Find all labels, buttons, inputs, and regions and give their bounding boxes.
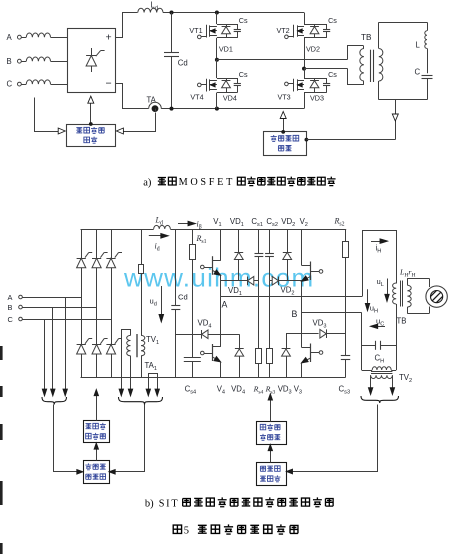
svg-text:VD2: VD2 — [306, 45, 320, 54]
resistor Rs1 — [190, 245, 196, 260]
diode VD1 vertical — [238, 229, 240, 252]
svg-text:Cd: Cd — [178, 293, 188, 302]
arrow iH — [371, 241, 382, 243]
dc bottom rail — [81, 377, 346, 379]
brace phases group — [42, 397, 67, 405]
cell loop wires — [304, 78, 327, 80]
inductor line A — [21, 37, 26, 39]
svg-text:VT3: VT3 — [278, 92, 291, 101]
induction heating coil + workpiece — [426, 286, 447, 307]
svg-text:−: − — [106, 78, 112, 90]
capacitor Cd — [171, 13, 173, 53]
TB secondary — [378, 22, 380, 48]
diode VD4 horizontal — [176, 334, 202, 336]
phase line A — [22, 297, 81, 299]
arrow uH — [367, 289, 369, 304]
thyristor column x=111.0 — [111, 229, 113, 258]
svg-text:B: B — [8, 303, 13, 312]
svg-text:MOSFET: MOSFET — [179, 177, 235, 188]
node: Ld-Cd junction — [170, 11, 174, 15]
svg-text:A: A — [8, 293, 13, 302]
bottom dc rail — [161, 108, 304, 110]
svg-text:B: B — [7, 57, 12, 66]
arrow uC — [377, 326, 385, 328]
wire: rectifier + to Ld — [116, 13, 138, 38]
svg-text:VT4: VT4 — [190, 92, 203, 101]
diode VD2 — [314, 24, 316, 27]
rectifier control circuit box — [84, 461, 110, 484]
brace TV2 group — [361, 396, 399, 403]
capacitor Cs of VT4 — [237, 78, 239, 83]
snubber column Rs2 / Cs3 — [345, 229, 347, 242]
arrow from TA into rectifier control — [123, 113, 156, 132]
node right leg midpoint — [302, 67, 306, 71]
node: VT1 drain junction — [215, 11, 219, 15]
TV1 secondary leads to control — [122, 330, 131, 390]
phase line C — [22, 319, 111, 321]
diode VD3 — [314, 78, 316, 81]
TB primary lower wire — [396, 304, 398, 370]
svg-text:5: 5 — [184, 526, 189, 537]
svg-text:C: C — [7, 80, 13, 89]
SIT V4 — [220, 296, 222, 347]
node: VT4 source junction — [215, 107, 219, 111]
svg-text:+: + — [106, 31, 112, 43]
inductor line B — [21, 61, 26, 63]
arrow ud — [161, 286, 163, 316]
svg-text:A: A — [222, 300, 228, 310]
diode VD1 — [226, 24, 228, 27]
diode VD4 — [226, 78, 228, 81]
inverter control circuit box — [257, 463, 287, 486]
arrow id — [149, 235, 162, 237]
svg-text:C: C — [415, 68, 421, 77]
thyristor lower — [106, 344, 115, 354]
arrow rect-control to rect-drive — [96, 448, 98, 461]
svg-text:VD3: VD3 — [310, 94, 324, 103]
wire brace-TV1 to rect-control — [115, 405, 145, 472]
rectifier box — [68, 29, 116, 93]
arrow inverter control to bridge — [283, 119, 285, 132]
phase line B — [22, 307, 96, 309]
diode VD2 vertical — [287, 229, 289, 252]
SIT V1 — [220, 229, 222, 261]
diode VD3 horizontal — [286, 333, 319, 335]
thyristor upper — [106, 258, 115, 268]
rectifier drive circuit box — [84, 421, 110, 443]
capacitor Cs of VT2 — [326, 24, 328, 29]
svg-text:TB: TB — [397, 317, 407, 326]
MOSFET VT1 — [198, 35, 202, 39]
svg-text:TB: TB — [361, 33, 372, 42]
svg-text:B: B — [292, 309, 298, 319]
capacitor Cs of VT3 — [326, 78, 328, 83]
arrow rect-control to rectifier — [90, 104, 92, 125]
thyristor upper — [77, 258, 86, 268]
diode VD3 vertical — [286, 334, 288, 349]
svg-text:SIT: SIT — [159, 499, 180, 510]
top dc rail — [163, 12, 304, 14]
cell loop wires — [304, 24, 327, 26]
node A-out left leg midpoint — [215, 58, 219, 62]
feedback wire from load to inverter control — [305, 138, 309, 142]
arrow rect-drive to bridge — [96, 395, 98, 421]
capacitor CH — [362, 345, 376, 347]
MOSFET VT3 — [285, 82, 289, 86]
wire B to CH/TV2 — [361, 313, 363, 371]
TV1 primary bottom lead — [141, 356, 143, 378]
bridge output wires to TB — [217, 59, 348, 61]
diode VD2 horizontal clamp — [270, 280, 273, 282]
sampling line from phase C — [44, 319, 46, 389]
resistor Rs4 — [258, 281, 260, 348]
svg-text:a): a) — [143, 178, 152, 189]
thyristor column x=96.6 — [96, 229, 98, 258]
svg-text:A: A — [7, 33, 13, 42]
wire brace-phases to rect-control — [54, 405, 78, 472]
thyristor column x=81.2 — [81, 229, 83, 258]
capacitor Cs of VT1 — [237, 24, 239, 29]
svg-text:Cs: Cs — [328, 70, 337, 79]
MOSFET VT2 — [285, 35, 289, 39]
sampling line from phase B — [52, 307, 54, 389]
transistor VT1 with VD1, Cs — [216, 13, 218, 25]
inverter drive circuit box — [257, 422, 287, 445]
svg-text:VT1: VT1 — [189, 26, 202, 35]
diode VD1 horizontal clamp — [221, 280, 248, 282]
arrow uL — [387, 279, 389, 296]
svg-text:C: C — [8, 315, 14, 324]
arrow inv-control to inv-drive — [270, 449, 272, 463]
inverter control circuit box — [264, 132, 307, 156]
snubber column Rs1 / Cs4 — [192, 229, 194, 245]
svg-text:L: L — [416, 41, 421, 50]
dc top rail — [81, 229, 154, 231]
capacitor Cd bottom — [175, 229, 177, 305]
SIT V2 — [301, 229, 303, 266]
sampling line from phase A — [65, 297, 67, 389]
svg-text:Cs: Cs — [239, 70, 248, 79]
svg-text:VD4: VD4 — [223, 94, 237, 103]
cell loop wires — [217, 24, 237, 26]
thyristor lower — [77, 344, 86, 354]
svg-text:Cs: Cs — [328, 16, 337, 25]
svg-text:Cs: Cs — [239, 16, 248, 25]
resistor Rs2 — [343, 242, 349, 258]
arrow from phases into rectifier control — [35, 98, 60, 132]
arrow inv-drive to bridge — [270, 399, 272, 422]
resistor on TV1 branch — [139, 265, 144, 274]
TV2 secondary leads — [370, 375, 372, 388]
page edge artifacts — [0, 346, 3, 360]
caption fig 5 — [173, 525, 181, 533]
thyristor symbol inside rectifier — [91, 48, 93, 56]
load loop with L and C — [379, 22, 427, 24]
MOSFET VT4 — [198, 83, 202, 87]
transformer TV1 sense branch — [141, 229, 143, 265]
diode VD4 vertical — [239, 334, 241, 349]
resistor Rs3 — [269, 281, 271, 348]
svg-text:VD1: VD1 — [219, 45, 233, 54]
capacitor Cs4 — [184, 357, 201, 359]
svg-text:VT2: VT2 — [277, 26, 290, 35]
thyristor upper — [92, 258, 101, 268]
SIT V3 — [301, 313, 303, 348]
svg-text:Cd: Cd — [178, 59, 188, 68]
thyristor lower — [92, 344, 101, 354]
capacitor Cs3 — [341, 355, 350, 357]
brace TV1/TA1 group — [119, 397, 163, 405]
arrow i-beta — [178, 223, 190, 225]
output loop iH — [363, 231, 397, 297]
TB core — [370, 50, 372, 82]
node: Cd bottom junction — [170, 107, 174, 111]
svg-text:b): b) — [145, 499, 154, 510]
capacitor Cs2 column — [269, 229, 271, 253]
wire: rectifier - to bottom rail — [116, 84, 149, 109]
capacitor Cs1 column — [258, 229, 260, 253]
wire brace-TV2 to inv-control — [292, 405, 378, 472]
transistor VT2 with VD2, Cs — [304, 13, 306, 25]
rectifier control circuit box — [67, 125, 116, 147]
cell loop wires — [217, 78, 237, 80]
inductor line C — [21, 84, 26, 86]
